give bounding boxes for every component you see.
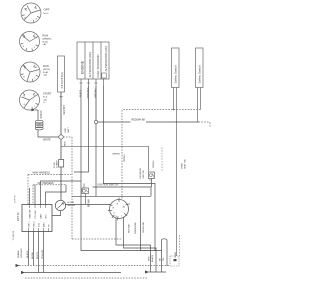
SECTION: bottom right [148, 239, 177, 272]
module bottom pins [29, 228, 49, 232]
svg-text:Safety Switch: Safety Switch [198, 65, 202, 84]
node splice connector [59, 135, 63, 139]
ignition coil L1 [35, 120, 43, 130]
svg-text:M+G: M+G [44, 13, 49, 15]
svg-text:RZT 50: RZT 50 [16, 212, 20, 221]
svg-text:BATT: BATT [39, 213, 42, 219]
svg-text:OR/WH: OR/WH [124, 154, 126, 162]
pin letters [113, 204, 126, 219]
switch position circle START [20, 90, 40, 110]
ground arrow 1 [16, 264, 20, 267]
wire S2 pin a [198, 88, 199, 123]
svg-text:RED: RED [65, 141, 67, 146]
SECTION: harness dashed [25, 137, 148, 278]
SECTION: magneto [31, 109, 72, 142]
SECTION: grounds [16, 248, 171, 274]
svg-text:FUSE: FUSE [54, 162, 56, 168]
spark plug ground arrow [31, 109, 38, 112]
brake safety switch S2 [196, 48, 204, 88]
wire module pin up c [46, 185, 67, 205]
wire engine pin1 down [81, 86, 162, 251]
wire module gnd 1 [28, 232, 30, 266]
svg-text:20 AMP: 20 AMP [56, 160, 59, 168]
wire gray bus top [122, 110, 201, 200]
svg-text:SWITCH: SWITCH [143, 169, 145, 178]
svg-text:SEAT SW: SEAT SW [28, 210, 31, 219]
svg-text:SW. HARNESS: SW. HARNESS [38, 182, 54, 185]
harness boundary right [71, 137, 73, 239]
svg-text:TO DECK: TO DECK [13, 230, 15, 240]
wire B+ horizontal [98, 121, 131, 123]
wire branch node B [61, 146, 149, 171]
svg-text:WHITE: WHITE [43, 139, 51, 142]
wire pin3 continues [95, 124, 97, 197]
svg-text:M: M [25, 9, 27, 11]
SECTION: engine connector [74, 42, 198, 251]
starter motor [58, 56, 65, 92]
SECTION: key switch [82, 184, 156, 273]
hour meter M1 [55, 200, 65, 210]
svg-text:GREEN: GREEN [112, 154, 120, 156]
harness boundary bottom [25, 277, 148, 279]
svg-text:GND 1: GND 1 [28, 221, 30, 228]
relay K1 [82, 188, 89, 194]
switch position circle RUN 1 [20, 32, 40, 52]
connector tick [60, 96, 63, 98]
wire S1 pin b [176, 88, 178, 122]
svg-text:FRAME: FRAME [17, 250, 20, 258]
svg-text:BATT: BATT [67, 126, 70, 132]
SECTION: mid wires [72, 110, 201, 251]
pin stubs [80, 79, 104, 86]
ground arrow 2 [21, 271, 25, 274]
ignition key switch SW1 [110, 200, 129, 219]
wire starter to splice [60, 92, 62, 135]
label OFF [44, 8, 50, 15]
harness boundary bottom 2 [72, 238, 122, 240]
wire key B down [116, 218, 151, 272]
svg-text:OR/WH BK: OR/WH BK [143, 221, 145, 233]
inner connector boundary [33, 184, 66, 186]
svg-text:METER: METER [68, 205, 76, 207]
wire module gnd 2 [33, 232, 35, 266]
svg-text:RUN: RUN [43, 64, 49, 68]
wire coil to node [38, 130, 59, 137]
wire module pin up a [29, 188, 31, 205]
wire key S down [124, 217, 157, 272]
wire engine pin4 down [104, 86, 156, 251]
svg-text:GRAY: GRAY [174, 251, 177, 258]
wire module mag [43, 232, 45, 273]
junction [173, 109, 175, 111]
wire to right edge [199, 122, 211, 128]
svg-text:ENGINE: ENGINE [81, 60, 85, 74]
svg-text:RED BAT: RED BAT [128, 223, 131, 233]
harness boundary left [27, 174, 29, 204]
wire relay bottom [85, 194, 87, 205]
svg-text:BK/WH: BK/WH [88, 199, 90, 207]
svg-text:GRAY: GRAY [181, 162, 184, 169]
svg-text:G: G [24, 104, 26, 106]
wire meter bottom [52, 211, 61, 216]
wire plug lead [37, 110, 39, 121]
svg-text:B+S: B+S [43, 97, 48, 99]
interlock module U1 [22, 205, 52, 232]
label RUN brake [43, 64, 50, 77]
connector mark [174, 259, 177, 261]
inner connector left [32, 185, 34, 205]
svg-text:PTO SW: PTO SW [35, 211, 37, 219]
svg-text:(MOW): (MOW) [43, 69, 50, 71]
svg-text:ACC: ACC [44, 214, 47, 219]
wire module pin up b [35, 181, 81, 205]
svg-text:OR: OR [163, 257, 165, 261]
SECTION: ignition switch position circles [20, 3, 52, 110]
jumper plug loop [162, 239, 168, 272]
svg-text:RED/WH BK: RED/WH BK [132, 118, 146, 121]
svg-text:MAG: MAG [42, 222, 45, 227]
svg-text:OR/WH: OR/WH [153, 160, 155, 168]
wire diode down [151, 179, 153, 188]
wire module kill [38, 232, 40, 273]
switch position circle OFF [21, 3, 41, 23]
wire relay top [83, 184, 85, 189]
ground bus right [149, 271, 167, 273]
svg-text:ALTERNATOR (AC): ALTERNATOR (AC) [104, 46, 108, 72]
svg-text:RED: RED [65, 127, 67, 132]
key switch pins [108, 198, 130, 221]
SECTION: starter [54, 56, 149, 201]
svg-text:G: G [23, 77, 25, 79]
svg-text:Safety Switch: Safety Switch [174, 65, 178, 84]
svg-text:B+A1: B+A1 [43, 71, 49, 74]
engine connector J1 [77, 42, 109, 79]
svg-text:START: START [43, 92, 52, 96]
diode module D1 [149, 172, 155, 181]
svg-text:GREEN/WH: GREEN/WH [135, 222, 137, 234]
SECTION: module [16, 181, 110, 273]
wire S2 pin b [200, 88, 202, 110]
svg-text:YELLOW: YELLOW [42, 249, 44, 259]
svg-text:BK/WH: BK/WH [32, 251, 34, 259]
svg-text:RUN: RUN [43, 34, 49, 38]
svg-text:MAIN HARNESS: MAIN HARNESS [33, 171, 51, 174]
wire engine pin3 down to bullet [95, 86, 97, 120]
svg-text:SEAT SW: SEAT SW [184, 158, 187, 169]
svg-text:(BRAKE): (BRAKE) [43, 38, 52, 41]
wire gray stub [63, 136, 72, 138]
wire B+ horizontal right [146, 121, 198, 123]
wire S1 pin a [173, 88, 175, 110]
module top pins [30, 205, 46, 209]
wire S1b long down [176, 122, 178, 256]
svg-text:OFF: OFF [44, 8, 50, 12]
svg-text:G: G [24, 18, 26, 20]
wire engine pin2 down [74, 86, 89, 172]
wire splice to fuse [60, 139, 62, 159]
frame ground bus 2 [25, 272, 122, 274]
bullet connector [94, 120, 97, 123]
svg-text:B+A1: B+A1 [43, 40, 49, 43]
svg-text:FUEL SOLENOID: FUEL SOLENOID [96, 54, 100, 77]
svg-text:IGNITION SWITCH: IGNITION SWITCH [98, 184, 119, 187]
svg-text:HOUR: HOUR [68, 202, 75, 204]
ground arrow 3 [145, 270, 149, 273]
svg-text:BLACK: BLACK [151, 254, 154, 262]
connector box [170, 235, 180, 266]
fuse F1 20A [59, 160, 64, 168]
wire faint right [161, 148, 163, 172]
wire meter to key switch [66, 204, 110, 206]
harness boundary main [28, 173, 71, 175]
switch position circle RUN 2 [20, 62, 40, 82]
label START [43, 92, 52, 105]
wire accessory [72, 195, 151, 197]
svg-text:RED/WH: RED/WH [63, 105, 66, 115]
svg-text:BLACK: BLACK [26, 250, 29, 258]
connector key tab [102, 73, 106, 78]
wire fuse to meter [60, 167, 62, 201]
svg-text:G: G [23, 46, 25, 48]
frame ground bus gray [19, 265, 170, 267]
svg-text:WHITE: WHITE [37, 251, 39, 259]
svg-text:RED: RED [148, 256, 150, 261]
svg-text:SPARK: SPARK [40, 110, 43, 118]
junction [176, 121, 178, 123]
svg-text:TO PTO: TO PTO [15, 195, 17, 203]
svg-text:REVERSE: REVERSE [140, 168, 142, 179]
wire key A1 feed [93, 187, 152, 196]
seat safety switch S1 [172, 48, 180, 88]
wire down to plug [141, 196, 151, 250]
svg-text:GND 2: GND 2 [33, 221, 35, 228]
SECTION: safety switches [172, 48, 211, 256]
svg-text:ALTERNATOR (DC): ALTERNATOR (DC) [88, 52, 92, 78]
svg-text:STARTER: STARTER [60, 71, 64, 88]
label RUN [43, 34, 52, 47]
svg-text:GROUND: GROUND [21, 248, 23, 258]
